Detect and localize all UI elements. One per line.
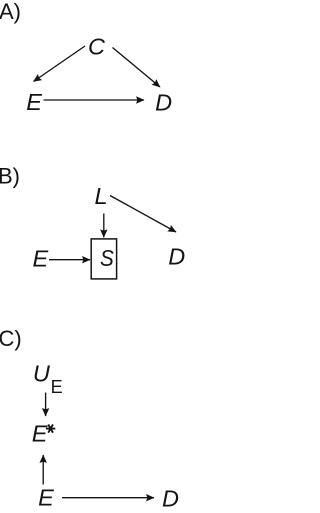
svg-text:C: C [88,34,106,60]
svg-text:C): C) [0,326,22,351]
arrow E to D (panel C) [62,497,154,499]
svg-text:A): A) [0,0,21,24]
arrow E to D (panel A) [44,99,145,101]
arrow E to S [49,259,90,261]
arrow L to S [103,214,105,238]
arrow U to E* [45,393,47,417]
svg-text:D: D [155,90,172,116]
svg-text:U: U [33,361,51,387]
box around S [91,239,116,279]
svg-text:E: E [32,421,48,447]
svg-text:E: E [33,246,49,272]
svg-text:D: D [162,486,179,512]
arrow L to D [110,196,176,233]
svg-text:B): B) [0,164,20,189]
svg-text:S: S [100,245,114,272]
svg-text:D: D [168,244,185,270]
svg-text:L: L [95,183,108,209]
arrow C to E [34,46,86,82]
svg-text:E: E [38,485,54,511]
arrow E to E* (upward) [42,455,44,485]
svg-text:E: E [26,89,42,115]
arrow C to D [113,48,161,88]
svg-text:E: E [51,377,63,397]
